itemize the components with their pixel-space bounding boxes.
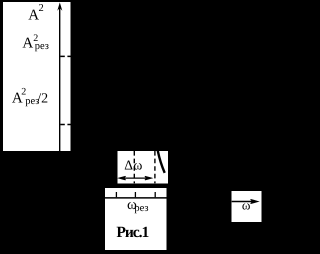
label A^2: [28, 3, 44, 24]
label A^2_rez: [22, 33, 48, 52]
svg-text:ω: ω: [133, 158, 142, 173]
resonance curve right flank: [158, 151, 165, 173]
tick omega_1: [115, 192, 117, 197]
svg-text:рез: рез: [134, 203, 148, 214]
white panel P4: omega axis end: [232, 191, 262, 222]
dashed level line A2rez/2: [60, 124, 70, 126]
x-axis end segment: [232, 201, 253, 203]
x-axis segment: [105, 197, 167, 199]
delta-omega double arrow: [119, 176, 152, 180]
label omega_rez: [127, 197, 149, 214]
svg-text:Δ: Δ: [124, 158, 133, 173]
white panel P3: x-axis / caption area: [105, 188, 167, 250]
label A^2_rez/2: [12, 86, 48, 107]
y-axis arrowhead: [57, 2, 62, 10]
dashed vertical line at omega_rez: [133, 151, 135, 183]
svg-text:рез: рез: [35, 41, 49, 52]
svg-text:Рис.1: Рис.1: [116, 224, 148, 241]
svg-text:/2: /2: [37, 92, 48, 107]
svg-text:ω: ω: [242, 198, 251, 213]
x-axis arrowhead: [251, 199, 259, 203]
white panel P1: y-axis labels area: [3, 2, 71, 151]
label delta-omega: [124, 158, 142, 173]
dashed level line A2rez: [60, 55, 70, 57]
tick omega_rez: [134, 192, 136, 197]
dashed vertical line at omega_2: [154, 151, 156, 183]
y-axis line: [59, 6, 61, 151]
svg-text:2: 2: [39, 3, 44, 14]
tick omega_2: [154, 192, 156, 197]
white panel P2: delta-omega area: [118, 151, 168, 183]
svg-text:A: A: [22, 36, 33, 52]
